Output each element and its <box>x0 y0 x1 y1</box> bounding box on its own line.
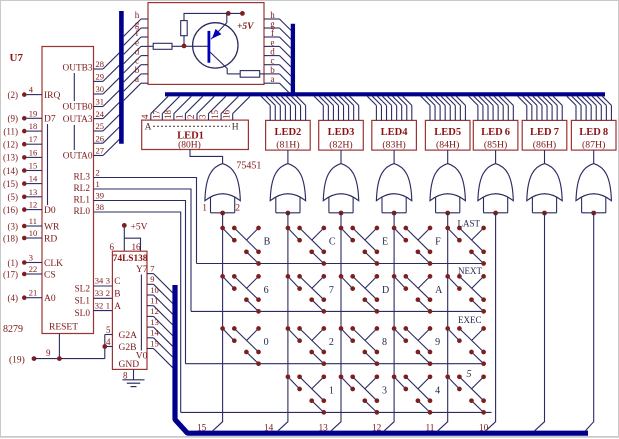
svg-text:EXEC: EXEC <box>458 315 482 325</box>
svg-text:G2A: G2A <box>119 331 138 341</box>
key 0 <box>220 326 261 366</box>
svg-text:14: 14 <box>150 328 159 338</box>
svg-text:(2): (2) <box>8 90 19 100</box>
driver gate 7 (75451) <box>527 164 562 216</box>
key A <box>392 274 433 314</box>
key row line RL0 <box>181 411 492 413</box>
svg-text:a: a <box>135 74 139 84</box>
key E <box>339 226 380 266</box>
U7 SL1 to 74LS138 input B <box>75 288 121 307</box>
U7 RL1 pin 39 wire to key row <box>73 191 185 364</box>
LED1 pin 3 wire to segment bus <box>198 96 226 120</box>
segment g wire (left) <box>124 19 148 45</box>
segment h wire (right) <box>264 10 291 30</box>
svg-text:10: 10 <box>150 285 159 295</box>
svg-text:CS: CS <box>44 270 56 280</box>
display LED5 (84H) <box>425 120 470 150</box>
svg-text:RL2: RL2 <box>73 184 90 194</box>
key row line RL2 <box>191 310 486 312</box>
key column 6 wire <box>485 213 495 431</box>
svg-text:(84H): (84H) <box>436 140 459 151</box>
key LAST <box>445 226 486 266</box>
svg-text:LED 8: LED 8 <box>579 127 608 138</box>
transistor Q1 (PNP driver) <box>193 13 238 74</box>
key column 3 wire <box>331 213 341 431</box>
ground symbol <box>123 380 145 387</box>
svg-text:LAST: LAST <box>458 219 481 229</box>
U7 pin 22 CS <box>3 264 56 280</box>
resistor R output (horizontal) <box>227 71 264 78</box>
+5V supply for 74LS138 <box>110 223 148 252</box>
svg-text:(13): (13) <box>3 153 18 163</box>
segment b wire (right) <box>264 65 291 85</box>
svg-text:1: 1 <box>174 115 184 120</box>
resistor R base series (horizontal) <box>148 43 208 49</box>
svg-text:D: D <box>382 285 389 296</box>
key 3 <box>339 374 380 414</box>
svg-text:RL3: RL3 <box>73 173 90 183</box>
key row line RL1 <box>186 363 487 365</box>
svg-text:LED3: LED3 <box>328 127 355 138</box>
U7 RL2 pin 1 wire to key row <box>73 179 191 311</box>
key column 8 wire <box>585 213 594 431</box>
U7 pin 4 IRQ <box>8 85 61 101</box>
svg-text:2: 2 <box>329 337 334 348</box>
svg-text:3: 3 <box>382 385 387 396</box>
74LS138 output Y pin 12 to column bus <box>147 306 173 335</box>
svg-text:19: 19 <box>29 108 38 118</box>
wire LED5 to driver 5 <box>447 150 449 164</box>
driver gate 3 (75451) <box>323 164 358 216</box>
key 7 <box>286 274 327 314</box>
+5V rail in driver box <box>184 11 254 32</box>
svg-text:(87H): (87H) <box>582 140 605 151</box>
svg-text:11: 11 <box>426 424 435 434</box>
LED2 segment wires to bus <box>261 96 306 120</box>
display LED8 (87H) <box>571 120 616 150</box>
driver gate 1 (75451) <box>205 164 240 216</box>
key 9 <box>392 326 433 366</box>
svg-text:+5V: +5V <box>131 223 148 233</box>
segment c wire (right) <box>264 56 291 76</box>
svg-text:H: H <box>232 122 239 132</box>
key column 5 wire <box>437 213 447 431</box>
key 6 <box>220 274 261 314</box>
svg-text:15: 15 <box>150 338 159 348</box>
svg-text:10: 10 <box>29 228 38 238</box>
segment e wire (left) <box>124 37 148 63</box>
thick column select bus (L-shape) <box>175 285 588 433</box>
U7 pin 17 (12) <box>3 134 42 149</box>
74LS138 output Y pin 13 to column bus <box>147 317 173 346</box>
LED3 segment wires to bus <box>314 96 359 120</box>
svg-text:14: 14 <box>264 424 274 434</box>
segment f wire (right) <box>264 28 291 48</box>
74LS138 internal Y line <box>140 275 142 351</box>
svg-text:(18): (18) <box>3 233 18 243</box>
svg-text:(85H): (85H) <box>484 140 507 151</box>
svg-text:(4): (4) <box>8 293 19 303</box>
svg-text:16: 16 <box>29 147 38 157</box>
left segment bundle bar <box>119 11 124 144</box>
svg-text:13: 13 <box>319 424 329 434</box>
segment driver circuit box <box>148 3 264 85</box>
svg-text:13: 13 <box>29 187 38 197</box>
svg-text:8279: 8279 <box>3 324 23 335</box>
svg-text:OUTB3: OUTB3 <box>63 64 93 74</box>
svg-text:(3): (3) <box>8 221 19 231</box>
LED1 pin 16 wire to segment bus <box>222 96 250 120</box>
svg-text:31: 31 <box>96 97 105 107</box>
svg-text:(82H): (82H) <box>329 140 352 151</box>
svg-text:24: 24 <box>96 109 105 119</box>
driver gate 6 (75451) <box>478 164 513 216</box>
key D <box>339 274 380 314</box>
U7 RESET pin 9 wire <box>46 334 59 359</box>
segment e wire (right) <box>264 37 291 57</box>
segment h wire (left) <box>124 10 148 36</box>
IC 74LS138 body <box>112 251 147 369</box>
svg-text:12: 12 <box>372 424 382 434</box>
svg-text:11: 11 <box>29 216 37 226</box>
svg-text:LED 6: LED 6 <box>481 127 510 138</box>
svg-text:LED 7: LED 7 <box>530 127 559 138</box>
svg-text:18: 18 <box>29 121 38 131</box>
driver gate 4 (75451) <box>376 164 411 216</box>
svg-text:3: 3 <box>198 114 208 119</box>
svg-text:LED2: LED2 <box>274 127 301 138</box>
key B <box>220 226 261 266</box>
svg-text:WR: WR <box>44 222 60 232</box>
svg-text:LED5: LED5 <box>434 127 461 138</box>
svg-text:28: 28 <box>96 59 105 69</box>
wire LED1 to driver 1 output <box>190 150 223 164</box>
svg-text:1: 1 <box>106 300 110 310</box>
LED6 segment wires to bus <box>469 96 514 120</box>
svg-text:34: 34 <box>95 276 104 286</box>
svg-text:A: A <box>114 302 121 312</box>
svg-text:3: 3 <box>29 253 33 263</box>
display LED6 (85H) <box>473 120 518 150</box>
svg-text:(17): (17) <box>3 269 18 279</box>
key 8 <box>339 326 380 366</box>
gate1 pin numbers <box>202 204 240 214</box>
svg-text:32: 32 <box>95 300 104 310</box>
display LED2 (81H) <box>266 120 311 150</box>
key 2 <box>286 326 327 366</box>
OUTA internal line <box>73 125 75 150</box>
LED5 segment wires to bus <box>421 96 466 120</box>
display LED4 (83H) <box>372 120 417 150</box>
svg-text:SL0: SL0 <box>75 309 91 319</box>
svg-text:U7: U7 <box>10 52 24 64</box>
svg-text:22: 22 <box>29 264 38 274</box>
U7 pin 10 RD <box>3 228 57 244</box>
key NEXT <box>445 274 486 314</box>
74LS138 G2A G2B <box>102 325 137 353</box>
svg-text:38: 38 <box>96 202 105 212</box>
IC U7 8279 body <box>42 47 94 334</box>
svg-text:(15): (15) <box>3 179 18 189</box>
display LED1 (80H) <box>142 120 249 150</box>
svg-text:(86H): (86H) <box>533 140 556 151</box>
svg-text:RL0: RL0 <box>73 207 90 217</box>
svg-text:6: 6 <box>264 285 269 296</box>
U7 pin 15 (14) <box>3 161 42 176</box>
svg-text:16: 16 <box>132 242 142 252</box>
svg-text:(5): (5) <box>8 192 19 202</box>
U7 pin 13 (5) <box>8 187 43 202</box>
svg-text:A0: A0 <box>44 294 56 304</box>
svg-text:IRQ: IRQ <box>44 91 61 101</box>
key column 1 wire <box>212 213 222 431</box>
svg-text:9: 9 <box>435 337 440 348</box>
svg-text:G2B: G2B <box>119 343 137 353</box>
svg-text:(80H): (80H) <box>178 139 201 150</box>
svg-text:5: 5 <box>106 325 111 335</box>
74LS138 output Y pin 15 to column bus <box>147 338 173 367</box>
U7 SL2 to 74LS138 input C <box>75 276 121 295</box>
svg-text:SL1: SL1 <box>75 297 91 307</box>
svg-text:17: 17 <box>151 110 161 120</box>
svg-text:B: B <box>114 290 120 300</box>
svg-text:(11): (11) <box>3 126 18 136</box>
wire LED2 to driver 2 <box>287 150 289 164</box>
wire LED6 to driver 6 <box>495 150 497 164</box>
svg-text:17: 17 <box>29 134 38 144</box>
svg-text:11: 11 <box>150 296 158 306</box>
display LED7 (86H) <box>522 120 567 150</box>
LED1 pin 15 wire to segment bus <box>210 96 238 120</box>
svg-text:18: 18 <box>163 110 173 120</box>
U7 SL0 to 74LS138 input A <box>75 300 122 319</box>
U7 pin 3 CLK <box>8 253 64 269</box>
key column 4 wire <box>384 213 394 431</box>
svg-text:29: 29 <box>96 72 105 82</box>
key 5 <box>445 374 486 414</box>
svg-text:(14): (14) <box>3 166 18 176</box>
svg-text:1: 1 <box>329 385 334 396</box>
svg-text:9: 9 <box>46 348 51 358</box>
svg-text:(9): (9) <box>8 114 19 124</box>
OUTB internal line <box>73 73 75 101</box>
svg-text:12: 12 <box>150 306 159 316</box>
svg-text:A: A <box>435 285 443 296</box>
svg-text:9: 9 <box>150 274 154 284</box>
wire LED8 to driver 8 <box>593 150 595 164</box>
svg-text:2: 2 <box>106 288 110 298</box>
U7 OUT pin 27 wire to display bus <box>94 139 120 155</box>
U7 pin 21 A0 <box>8 288 56 304</box>
key column 2 wire <box>278 213 288 431</box>
74LS138 output Y pin 11 to column bus <box>147 296 173 325</box>
U7 pin 11 WR <box>8 216 60 232</box>
svg-text:(83H): (83H) <box>382 140 405 151</box>
LED4 segment wires to bus <box>367 96 412 120</box>
LED1 pin 1 wire to segment bus <box>174 96 202 120</box>
driver gate 8 (75451) <box>576 164 611 216</box>
svg-text:C: C <box>114 277 120 287</box>
U7 OUT pin 31 wire to display bus <box>94 90 120 106</box>
segment c wire (left) <box>124 56 148 82</box>
svg-text:8: 8 <box>382 337 387 348</box>
LED7 segment wires to bus <box>518 96 563 120</box>
svg-text:15: 15 <box>210 110 220 120</box>
svg-text:(19): (19) <box>9 354 25 365</box>
U7 RL0 pin 38 wire to key row <box>73 202 180 412</box>
74LS138 output Y pin 10 to column bus <box>147 285 173 314</box>
svg-text:SL2: SL2 <box>75 284 91 294</box>
key row line RL3 <box>197 263 487 265</box>
svg-text:OUTA3: OUTA3 <box>63 115 93 125</box>
svg-text:B: B <box>264 237 271 248</box>
LED1 pin 2 wire to segment bus <box>186 96 214 120</box>
wire LED4 to driver 4 <box>393 150 395 164</box>
right segment bundle bar <box>291 24 295 95</box>
svg-text:(12): (12) <box>3 140 18 150</box>
U7 OUT pin 24 wire to display bus <box>94 102 120 118</box>
wire LED3 to driver 3 <box>340 150 342 164</box>
74LS138 output Y pin 7 to column bus <box>147 263 173 292</box>
svg-text:1: 1 <box>202 204 207 214</box>
LED8 segment wires to bus <box>567 96 612 120</box>
svg-text:2: 2 <box>235 204 240 214</box>
svg-text:RD: RD <box>44 234 57 244</box>
svg-text:D7: D7 <box>44 115 56 125</box>
driver gate 5 (75451) <box>430 164 465 216</box>
svg-text:OUTA0: OUTA0 <box>63 151 93 161</box>
svg-text:26: 26 <box>96 133 105 143</box>
key F <box>392 226 433 266</box>
segment a wire (right) <box>264 74 291 94</box>
LED1 pin 18 wire to segment bus <box>163 96 191 120</box>
U7 OUT pin 25 wire to display bus <box>94 115 120 131</box>
display LED3 (82H) <box>319 120 364 150</box>
svg-text:(81H): (81H) <box>276 140 299 151</box>
svg-text:NEXT: NEXT <box>458 266 482 276</box>
svg-text:25: 25 <box>96 121 105 131</box>
thick segment bus (horizontal) <box>165 92 605 96</box>
LED1 pin 17 wire to segment bus <box>151 96 179 120</box>
U7 pin 16 (13) <box>3 147 42 162</box>
U7 OUT pin 26 wire to display bus <box>94 127 120 143</box>
svg-text:7: 7 <box>150 263 154 273</box>
U7 RL3 pin 2 wire to key row <box>73 168 196 264</box>
svg-text:27: 27 <box>96 146 105 156</box>
svg-text:10: 10 <box>479 424 489 434</box>
U7 OUT pin 29 wire to display bus <box>94 65 120 81</box>
key column 7 wire <box>534 213 544 431</box>
svg-text:(16): (16) <box>3 205 18 215</box>
svg-text:CLK: CLK <box>44 259 63 269</box>
svg-text:(1): (1) <box>8 258 19 268</box>
74LS138 output Y pin 14 to column bus <box>147 328 173 357</box>
svg-text:4: 4 <box>29 85 34 95</box>
svg-text:3: 3 <box>106 276 110 286</box>
key EXEC <box>445 326 486 366</box>
U7 pin 14 (15) <box>3 174 42 189</box>
svg-text:8: 8 <box>123 371 128 381</box>
svg-text:LED4: LED4 <box>381 127 409 138</box>
svg-text:75451: 75451 <box>236 161 261 172</box>
svg-text:C: C <box>329 237 336 248</box>
segment f wire (left) <box>124 28 148 54</box>
svg-text:7: 7 <box>329 285 334 296</box>
svg-text:2: 2 <box>96 168 100 178</box>
resistor R base pullup (vertical) <box>181 21 188 46</box>
svg-text:15: 15 <box>29 161 38 171</box>
key 4 <box>392 374 433 414</box>
74LS138 output Y pin 9 to column bus <box>147 274 173 303</box>
driver gate 2 (75451) <box>270 164 305 216</box>
74LS138 GND pin 8 and ground <box>119 360 140 381</box>
svg-text:14: 14 <box>29 174 38 184</box>
key C <box>286 226 327 266</box>
svg-text:1: 1 <box>96 179 100 189</box>
segment d wire (right) <box>264 47 291 67</box>
svg-text:Y7: Y7 <box>136 265 148 275</box>
svg-text:RL1: RL1 <box>73 196 90 206</box>
svg-text:a: a <box>271 74 275 84</box>
LED1 pin 4 wire to segment bus <box>140 96 168 120</box>
node (19) <box>9 347 105 366</box>
U7 pin 12 D0 <box>3 200 56 216</box>
svg-text:GND: GND <box>119 360 140 370</box>
svg-text:+5V: +5V <box>237 22 254 32</box>
segment a wire (left) <box>124 74 148 100</box>
key 1 <box>286 374 327 414</box>
segment d wire (left) <box>124 47 148 73</box>
svg-text:0: 0 <box>264 337 269 348</box>
svg-text:74LS138: 74LS138 <box>113 254 148 264</box>
svg-text:F: F <box>435 237 441 248</box>
svg-text:5: 5 <box>467 369 472 380</box>
svg-text:4: 4 <box>435 385 440 396</box>
svg-text:13: 13 <box>150 317 159 327</box>
segment g wire (right) <box>264 19 291 39</box>
U7 OUT pin 30 wire to display bus <box>94 78 120 94</box>
svg-text:16: 16 <box>222 110 232 120</box>
svg-text:39: 39 <box>96 191 105 201</box>
svg-text:6: 6 <box>110 242 115 252</box>
svg-text:D0: D0 <box>44 206 56 216</box>
svg-text:21: 21 <box>29 288 38 298</box>
U7 pin 18 (11) <box>3 121 42 136</box>
svg-text:A: A <box>145 122 152 132</box>
svg-text:12: 12 <box>29 200 38 210</box>
U7 pin 19 D7 <box>8 108 56 124</box>
svg-text:33: 33 <box>95 288 104 298</box>
wire LED7 to driver 7 <box>544 150 546 164</box>
segment b wire (left) <box>124 65 148 91</box>
svg-text:30: 30 <box>96 84 105 94</box>
svg-text:15: 15 <box>197 424 207 434</box>
svg-text:OUTB0: OUTB0 <box>63 103 93 113</box>
svg-text:E: E <box>382 237 388 248</box>
D7-D0 internal bus line <box>47 124 49 205</box>
U7 OUT pin 28 wire to display bus <box>94 53 120 69</box>
svg-text:2: 2 <box>186 115 196 120</box>
svg-text:4: 4 <box>140 114 150 119</box>
svg-text:RESET: RESET <box>49 323 78 333</box>
